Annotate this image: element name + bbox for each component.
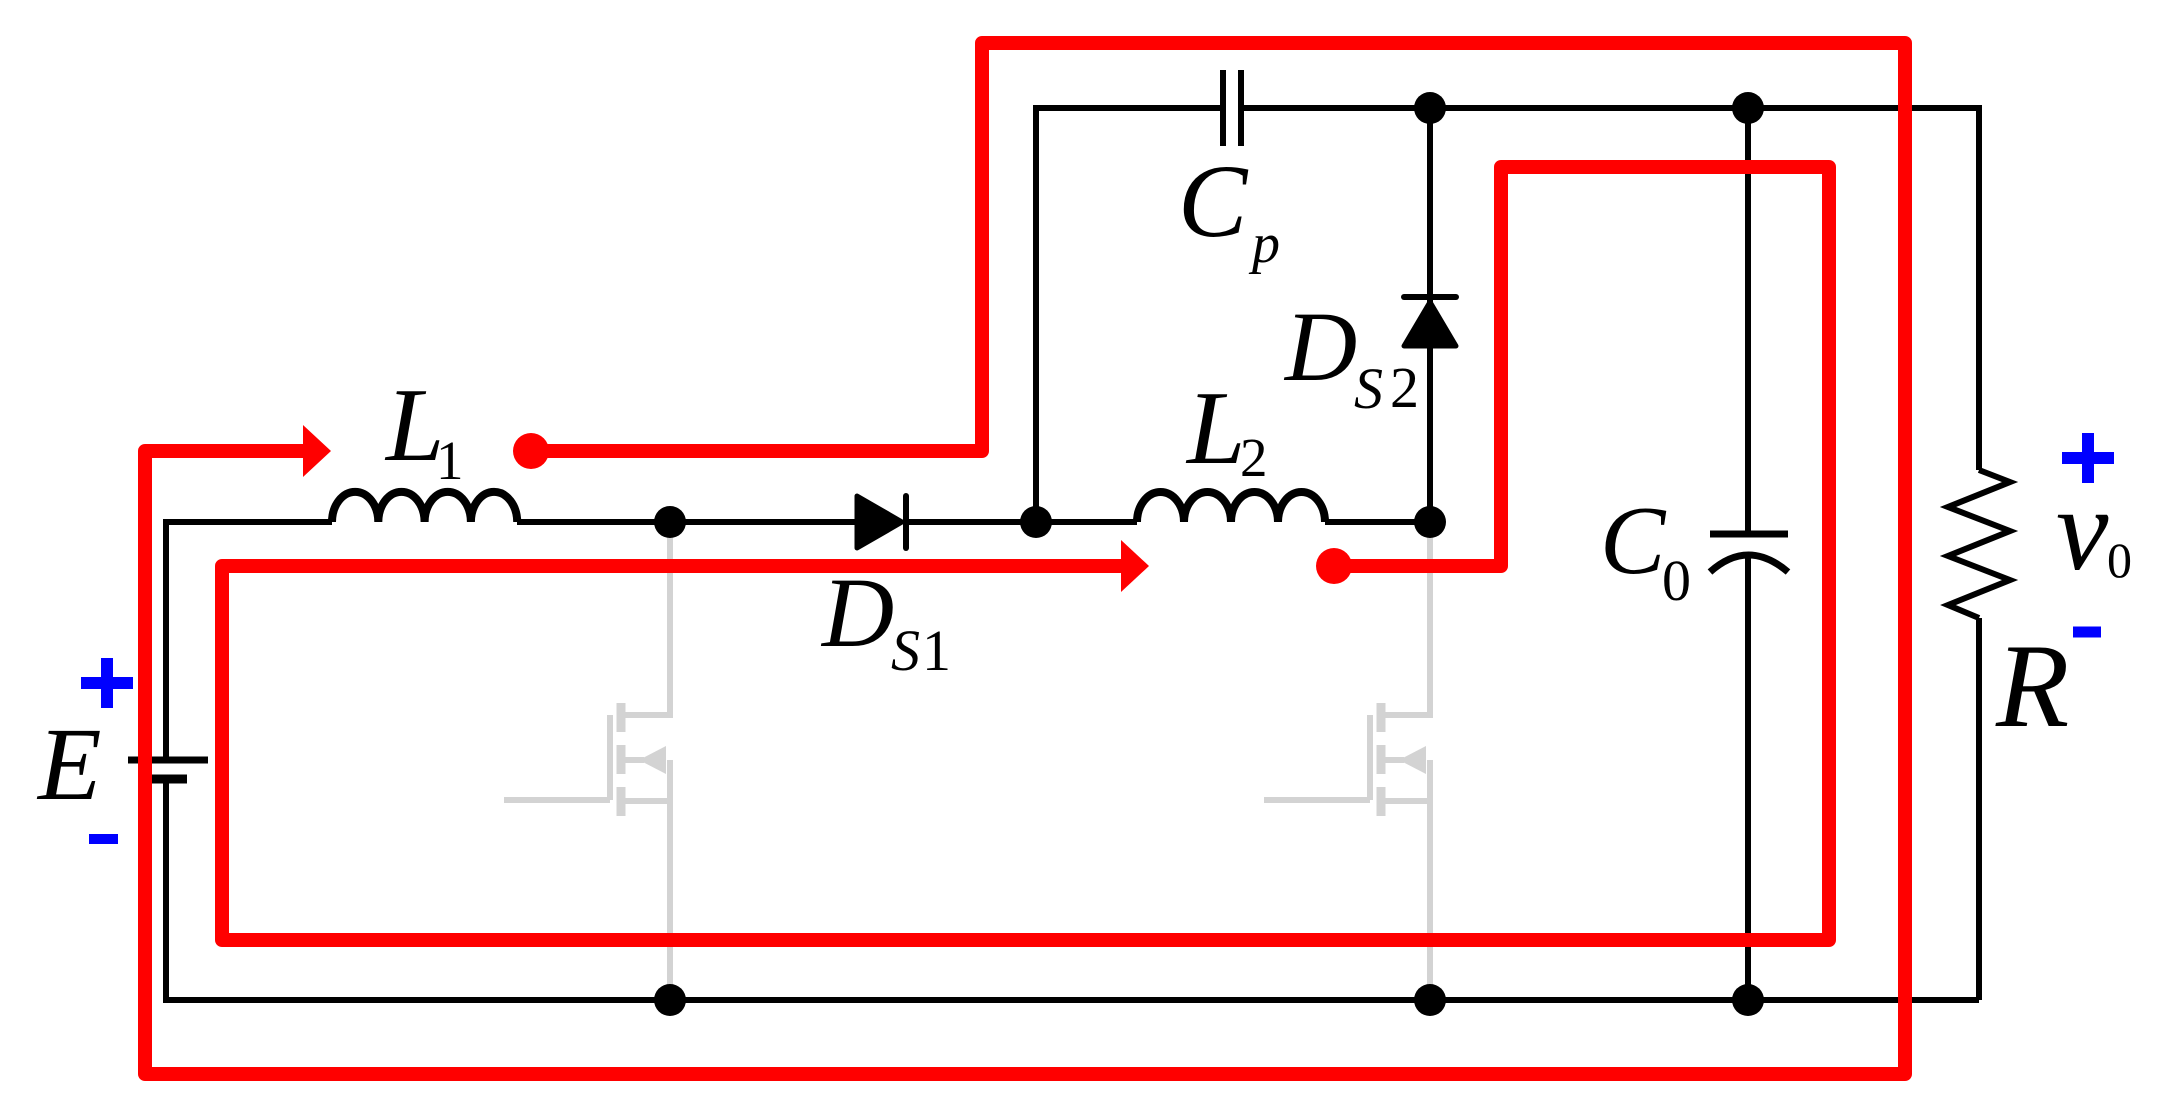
minus sign at E — [89, 834, 118, 844]
wire L1 to diode DS1 — [517, 519, 857, 525]
svg-text:1: 1 — [436, 430, 464, 491]
wire node C down through DS2 to node D — [1427, 108, 1433, 522]
svg-text:1: 1 — [922, 618, 951, 683]
svg-text:S: S — [1354, 356, 1383, 421]
wire battery top to L1 — [166, 522, 332, 757]
svg-text:D: D — [1283, 291, 1357, 402]
wire node E down to capacitor C0 — [1745, 108, 1751, 534]
svg-text:2: 2 — [1390, 355, 1419, 420]
svg-text:p: p — [1248, 213, 1280, 275]
plus sign at v0 — [2062, 433, 2114, 483]
red loop 1 arrowhead — [303, 425, 331, 477]
plus sign at E — [81, 658, 133, 708]
wire node C to top right corner and down to R — [1430, 108, 1979, 470]
minus sign at v0 — [2073, 627, 2101, 638]
node A junction dot — [654, 506, 686, 538]
wire L2 to node D — [1325, 519, 1430, 525]
red loop 2 start dot — [1316, 548, 1352, 584]
wire C0 to bottom rail — [1745, 553, 1751, 1000]
capacitor C0 — [1710, 534, 1788, 572]
resistor R — [1948, 470, 2010, 618]
svg-text:R: R — [1995, 619, 2069, 752]
svg-text:C: C — [1178, 144, 1249, 259]
transistor Q2 (gray, off) — [1264, 522, 1430, 1000]
node H junction dot — [1732, 984, 1764, 1016]
diode DS1 — [857, 496, 906, 548]
node G junction dot — [1414, 984, 1446, 1016]
red loop 1 start dot — [513, 433, 549, 469]
diode DS2 — [1404, 297, 1456, 346]
node D junction dot — [1414, 506, 1446, 538]
svg-text:D: D — [820, 557, 894, 668]
transistor Q1 (gray, off) — [504, 522, 670, 1000]
svg-text:L: L — [1185, 369, 1245, 486]
wire Cp to node C — [1241, 105, 1430, 111]
svg-text:C: C — [1600, 487, 1667, 595]
red current loop 1 (outer) wire — [145, 43, 1905, 1074]
node F junction dot — [654, 984, 686, 1016]
node B junction dot — [1020, 506, 1052, 538]
battery E plates — [128, 760, 208, 779]
svg-text:v: v — [2056, 464, 2109, 595]
wire node B up to Cp — [1036, 108, 1223, 522]
svg-text:S: S — [891, 618, 920, 683]
capacitor Cp — [1223, 70, 1241, 146]
svg-text:0: 0 — [2107, 532, 2132, 588]
wire node B to L2 — [1036, 519, 1137, 525]
wire R to bottom rail — [1976, 618, 1982, 1000]
svg-text:2: 2 — [1240, 427, 1268, 488]
inductor L1 — [332, 492, 517, 522]
node C junction dot — [1414, 92, 1446, 124]
wire DS1 to node B — [906, 519, 1036, 525]
inductor L2 — [1137, 492, 1325, 522]
svg-text:E: E — [36, 707, 102, 822]
red loop 2 arrowhead — [1121, 540, 1149, 592]
red current loop 2 (inner) wire — [222, 167, 1829, 940]
node E junction dot — [1732, 92, 1764, 124]
svg-text:0: 0 — [1662, 548, 1691, 613]
bottom rail wire — [166, 779, 1979, 1000]
